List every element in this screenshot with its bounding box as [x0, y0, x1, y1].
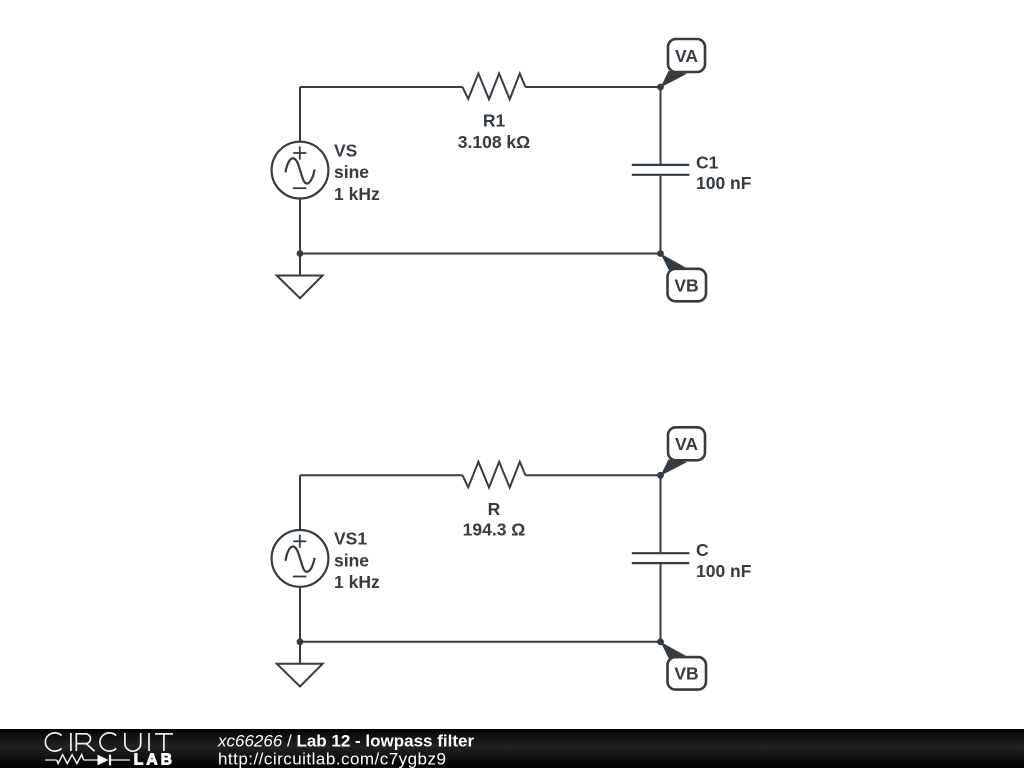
svg-text:194.3 Ω: 194.3 Ω: [463, 519, 526, 539]
voltage source VS (sine): [272, 142, 329, 199]
node junction dot (bottom circuit, node VB): [657, 638, 664, 645]
wire: bottom circuit, left vertical from top rail to VS1 top: [299, 475, 301, 530]
svg-text:sine: sine: [334, 551, 369, 571]
node flag VA (top circuit): [661, 39, 706, 88]
node junction dot (top circuit, VS/ground): [297, 250, 304, 257]
wire: bottom circuit, C bottom plate to node VB: [660, 564, 662, 642]
wire: top circuit, bottom rail: [300, 253, 661, 255]
svg-text:sine: sine: [334, 162, 369, 182]
svg-text:xc66266 / Lab 12 - lowpass fil: xc66266 / Lab 12 - lowpass filter: [217, 732, 474, 751]
svg-text:VS: VS: [334, 140, 357, 160]
wire: bottom circuit, right vertical from node VA to C top plate: [660, 475, 662, 552]
wire: top circuit, left vertical from top rail to VS top: [299, 87, 301, 142]
node flag VB (top circuit): [661, 254, 707, 302]
svg-text:R: R: [488, 499, 501, 519]
svg-text:C1: C1: [696, 152, 719, 172]
svg-text:100 nF: 100 nF: [696, 173, 752, 193]
node flag VA (bottom circuit): [661, 427, 706, 476]
svg-text:R1: R1: [483, 111, 506, 131]
svg-text:1 kHz: 1 kHz: [334, 572, 380, 592]
label: VS name and parameters: [334, 140, 380, 204]
capacitor C: [632, 553, 690, 563]
node junction dot (bottom circuit, node VA): [657, 472, 664, 479]
wire: bottom circuit, top rail left segment: [300, 474, 463, 476]
svg-text:100 nF: 100 nF: [696, 561, 752, 581]
svg-text:3.108 kΩ: 3.108 kΩ: [458, 132, 530, 152]
resistor R1: [463, 74, 526, 100]
footer bar: [0, 729, 1024, 768]
svg-text:LAB: LAB: [134, 752, 175, 768]
wire: top circuit, top rail right segment: [525, 86, 660, 88]
svg-text:VB: VB: [674, 664, 698, 684]
capacitor C1: [632, 165, 690, 175]
node junction dot (top circuit, node VA): [657, 84, 664, 91]
svg-text:C: C: [696, 540, 709, 560]
voltage source VS1 (sine): [272, 530, 329, 587]
svg-text:VS1: VS1: [334, 529, 367, 549]
label: VS1 name and parameters: [334, 529, 380, 593]
ground (top circuit): [277, 254, 323, 299]
svg-text:http://circuitlab.com/c7ygbz9: http://circuitlab.com/c7ygbz9: [218, 749, 446, 768]
svg-text:VA: VA: [675, 434, 698, 454]
wire: top circuit, right vertical from node VA to C1 top plate: [660, 87, 662, 164]
footer logo wordmark CIRCUIT (drawn strokes): [45, 733, 173, 751]
wire: top circuit, C1 bottom plate to node VB: [660, 176, 662, 254]
ground (bottom circuit): [277, 642, 323, 687]
footer logo wire right: [111, 759, 130, 761]
node junction dot (bottom circuit, VS1/ground): [297, 638, 304, 645]
wire: bottom circuit, top rail right segment: [525, 474, 660, 476]
node flag VB (bottom circuit): [661, 642, 707, 690]
wire: bottom circuit, VS1 bottom to ground node: [299, 587, 301, 642]
footer logo wire middle: [84, 759, 98, 761]
footer logo diode glyph: [98, 755, 111, 766]
wire: bottom circuit, bottom rail: [300, 641, 661, 643]
resistor R: [463, 462, 526, 488]
wire: top circuit, VS bottom to ground node: [299, 198, 301, 253]
svg-text:1 kHz: 1 kHz: [334, 184, 380, 204]
footer logo resistor glyph: [57, 755, 84, 764]
node junction dot (top circuit, node VB): [657, 250, 664, 257]
svg-text:VA: VA: [675, 46, 698, 66]
footer logo wire left: [45, 759, 130, 761]
svg-text:VB: VB: [674, 275, 698, 295]
wire: top circuit, top rail left segment: [300, 86, 463, 88]
